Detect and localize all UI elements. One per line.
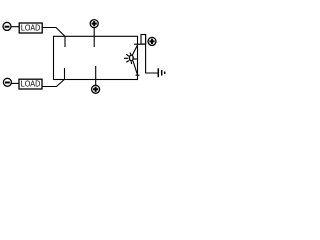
svg-text:LOAD: LOAD: [21, 78, 41, 88]
svg-text:LOAD: LOAD: [21, 23, 41, 33]
